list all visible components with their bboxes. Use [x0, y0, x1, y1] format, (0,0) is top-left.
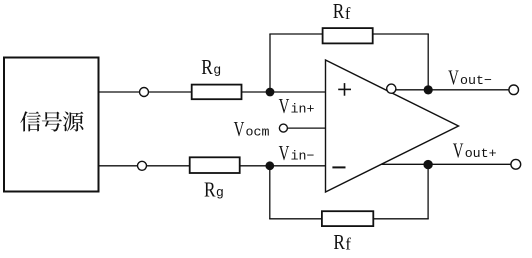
op-amp inverted output bubble [387, 84, 396, 93]
wire Rg2 to op-amp inverting input [240, 165, 326, 167]
svg-text:in−: in− [291, 148, 315, 163]
svg-text:ocm: ocm [246, 124, 270, 139]
svg-text:f: f [345, 235, 351, 254]
resistor Rg2 value label Rg [204, 179, 224, 202]
svg-text:R: R [201, 57, 213, 80]
svg-text:V: V [279, 142, 290, 165]
label Vout- [448, 66, 492, 89]
svg-text:g: g [216, 185, 224, 200]
wire feedback top left [269, 33, 322, 35]
svg-text:V: V [279, 95, 290, 118]
wire terminal to resistor Rg1 [149, 91, 192, 93]
Vout+ terminal circle [511, 159, 521, 169]
op-amp noninverting input + marker [338, 83, 351, 96]
wire node Vin- down to feedback [269, 166, 271, 219]
wire source to top input terminal [99, 91, 139, 93]
wire bubble to Vout- terminal [396, 89, 509, 91]
op-amp U1 triangle [326, 60, 459, 192]
node Vout+ junction dot [423, 160, 432, 169]
svg-text:g: g [213, 63, 221, 78]
wire source to bottom input terminal [99, 165, 138, 167]
svg-text:in+: in+ [291, 102, 315, 117]
svg-text:f: f [345, 4, 351, 23]
svg-text:out−: out− [460, 73, 492, 88]
top input terminal circle [140, 88, 149, 97]
wire node Vout+ down to feedback [427, 164, 429, 219]
Vout- terminal circle [509, 85, 519, 95]
node Vin- junction dot [265, 161, 274, 170]
wire feedback bottom left [269, 218, 322, 220]
wire Vocm to op-amp [287, 127, 325, 129]
resistor Rf1 value label Rf [333, 1, 351, 24]
resistor Rg2 body [190, 157, 240, 173]
label Vin+ [279, 95, 315, 118]
Vocm terminal circle [279, 124, 287, 132]
svg-text:V: V [448, 66, 459, 89]
label Vout+ [453, 139, 497, 162]
svg-text:R: R [204, 179, 216, 202]
svg-text:V: V [234, 117, 245, 140]
resistor Rf1 body [323, 28, 373, 43]
node Vout- junction dot [424, 85, 433, 94]
resistor Rf2 value label Rf [333, 232, 351, 255]
svg-text:V: V [453, 139, 464, 162]
wire feedback bottom right [373, 218, 428, 220]
wire down to node Vout- [427, 34, 429, 90]
signal source box [4, 58, 99, 192]
node Vin+ junction dot [266, 88, 275, 97]
wire node Vin+ up to feedback [269, 34, 271, 92]
wire Rg1 to op-amp noninverting input [242, 91, 326, 93]
bottom input terminal circle [138, 161, 147, 170]
label Vin- [279, 142, 315, 165]
resistor Rf2 body [322, 211, 373, 226]
wire feedback top right [373, 33, 429, 35]
resistor Rg1 value label Rg [201, 57, 221, 80]
label Vocm [234, 117, 270, 140]
op-amp inverting input - marker [332, 166, 345, 168]
wire op-amp to Vout+ terminal [381, 163, 511, 165]
svg-text:R: R [333, 232, 345, 255]
svg-text:out+: out+ [465, 146, 497, 161]
wire terminal to resistor Rg2 [147, 165, 190, 167]
resistor Rg1 body [192, 85, 242, 100]
signal source label 信号源 [20, 111, 83, 131]
svg-text:R: R [333, 1, 345, 24]
